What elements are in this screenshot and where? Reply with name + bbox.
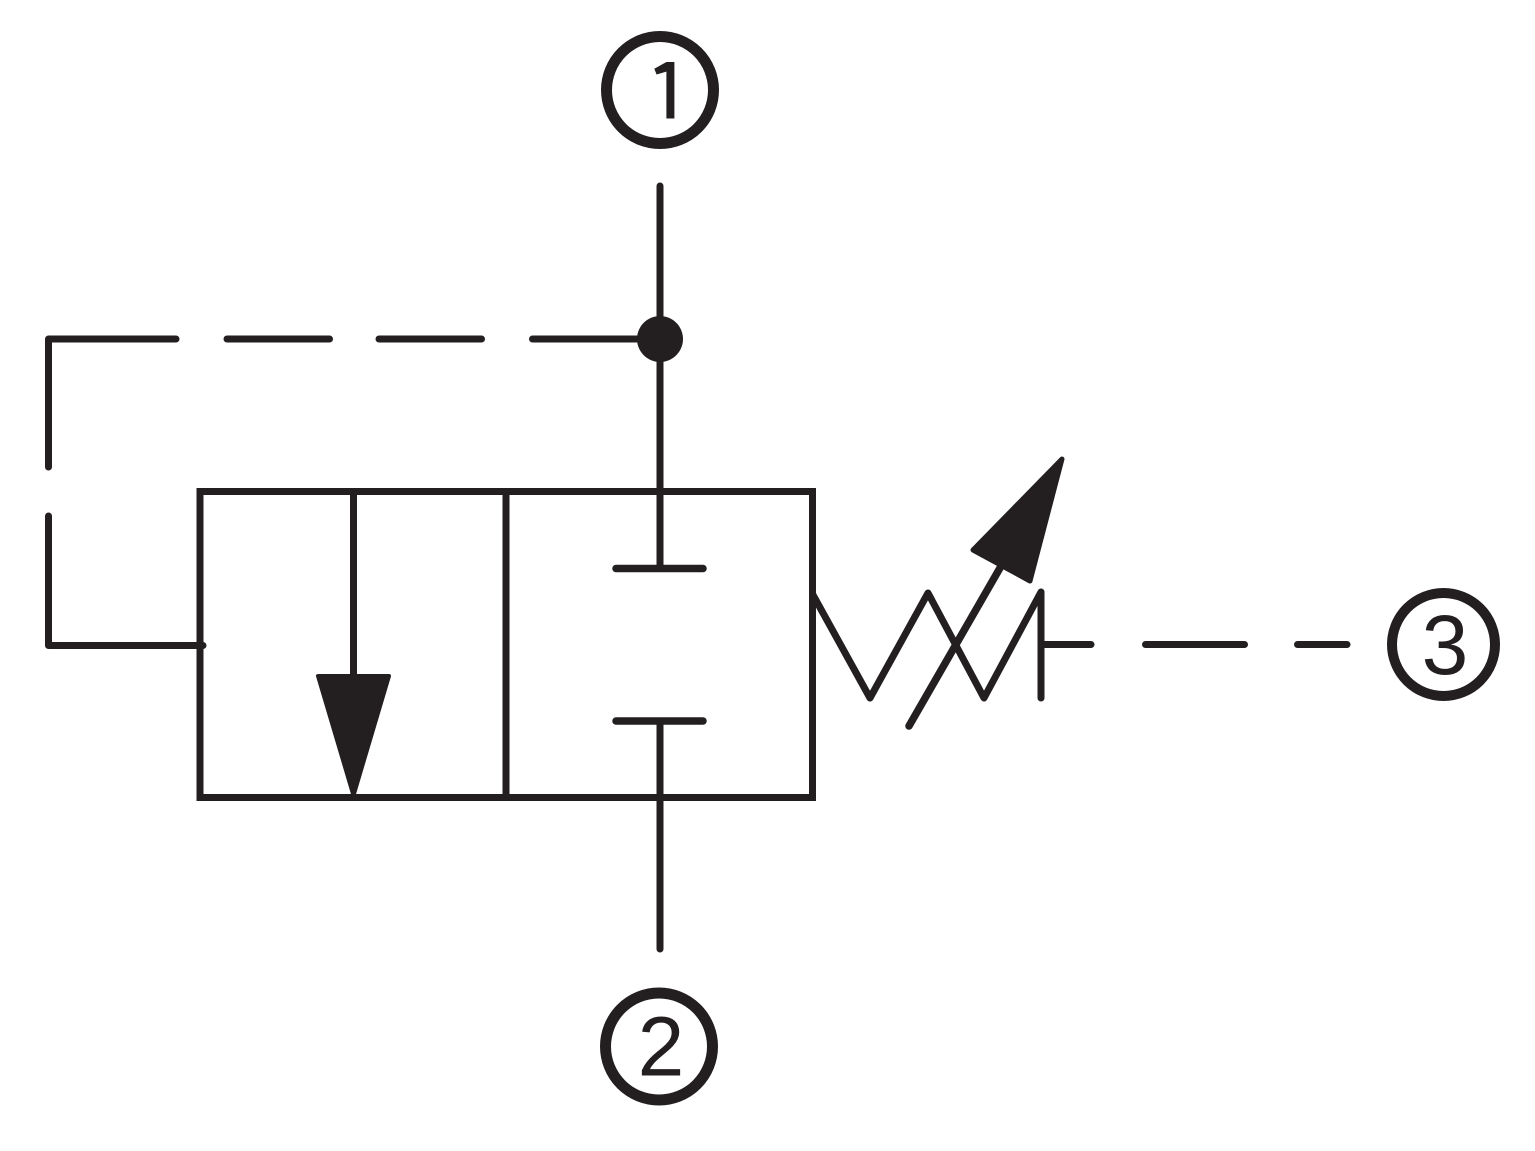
wire port 1 to pilot T <box>657 186 664 565</box>
flow arrow head (down) <box>318 676 389 796</box>
wire T-bar to port 2 <box>657 721 664 949</box>
valve body box <box>200 492 813 798</box>
svg-text:3: 3 <box>1422 598 1469 692</box>
valve position divider <box>503 492 510 798</box>
port circle 2 <box>606 993 713 1100</box>
spring (adjustable) <box>813 592 1042 698</box>
wire dashed pilot line horizontal (top left) <box>49 339 177 467</box>
node junction dot <box>637 316 683 362</box>
svg-text:2: 2 <box>638 1000 685 1094</box>
port circle 3 <box>1392 593 1495 696</box>
blocked port T-bar upper <box>616 565 703 573</box>
blocked port T-bar lower <box>616 717 703 725</box>
adjustment arrow head <box>973 459 1062 581</box>
adjustment arrow shaft <box>909 561 1004 726</box>
flow arrow shaft (left position) <box>350 492 357 681</box>
wire dashed to port 3 <box>1043 641 1091 648</box>
port circle 1 <box>607 37 714 144</box>
wire dashed pilot line vertical (left) into valve <box>49 516 204 646</box>
